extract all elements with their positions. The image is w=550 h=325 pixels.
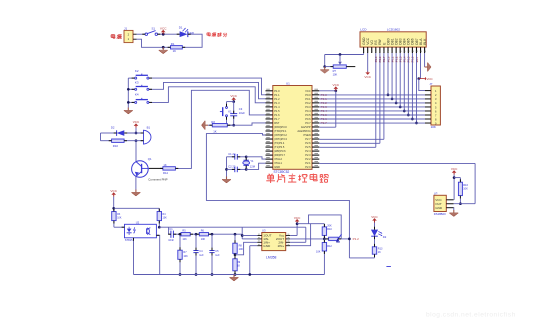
wire to 1IN- — [242, 238, 257, 240]
wire VCC to EA pin — [335, 91, 337, 127]
resistor R2 1K — [208, 124, 212, 126]
svg-text:1K: 1K — [213, 130, 217, 134]
op-amp U3 LM358 — [262, 233, 286, 251]
potentiometer contrast 10K — [325, 66, 334, 68]
svg-text:10uF: 10uF — [239, 111, 245, 115]
svg-text:S1: S1 — [152, 26, 156, 30]
wire J1 pin2 to rail — [137, 39, 171, 47]
svg-text:10K: 10K — [431, 125, 436, 129]
svg-text:K4: K4 — [135, 93, 139, 97]
VCC symbol at mcu — [319, 90, 336, 92]
svg-text:10K: 10K — [117, 217, 122, 220]
stray dash — [386, 266, 391, 268]
svg-text:1K: 1K — [237, 264, 240, 267]
wire buzzer node — [135, 132, 138, 135]
svg-text:10K: 10K — [201, 238, 206, 241]
wire BLA to VCC / RP1 pin1 — [419, 53, 421, 79]
svg-text:10K: 10K — [163, 217, 168, 220]
key K1 reset — [226, 107, 228, 109]
VCC power port at RP1 — [419, 78, 424, 80]
svg-text:ST815: ST815 — [125, 238, 133, 242]
resistor R12 1K — [323, 239, 325, 243]
svg-text:P2.1: P2.1 — [305, 161, 311, 165]
svg-text:(INT1)P3.3: (INT1)P3.3 — [274, 137, 287, 141]
VCC symbol lm358 — [290, 235, 297, 237]
svg-text:P1.5: P1.5 — [274, 109, 280, 113]
resistor R13 1K — [374, 236, 376, 247]
resistor R3 10K — [112, 212, 116, 221]
wire K3 to P1.2 — [149, 82, 265, 98]
resistor R6 10K — [199, 233, 208, 236]
svg-text:U1: U1 — [286, 82, 290, 86]
ground rail bottom — [134, 274, 325, 276]
sensor U4 DS18B20 — [434, 195, 446, 211]
svg-text:(TXD)P3.1: (TXD)P3.1 — [274, 129, 287, 133]
ground Q1 — [135, 176, 137, 189]
svg-text:P2.6: P2.6 — [305, 141, 311, 145]
svg-text:P1.1: P1.1 — [274, 93, 280, 97]
ground keys — [127, 108, 129, 111]
svg-text:(T1)P3.5: (T1)P3.5 — [274, 145, 285, 149]
svg-text:(WR)P3.6: (WR)P3.6 — [274, 149, 286, 153]
wire Q1 base — [142, 167, 149, 169]
svg-text:Q1: Q1 — [148, 157, 152, 161]
svg-text:VCC: VCC — [364, 75, 371, 79]
svg-text:P2.0: P2.0 — [305, 165, 311, 169]
svg-text:BLK: BLK — [423, 38, 427, 45]
wire opto cathode down — [133, 238, 135, 275]
wire keys common left — [127, 78, 129, 107]
wire comparator output to P3.2 — [206, 134, 349, 258]
svg-text:C1 22: C1 22 — [228, 152, 236, 156]
svg-text:U2: U2 — [136, 221, 140, 225]
wire led return — [374, 254, 376, 258]
lcd LCD1602 connector body — [360, 32, 426, 47]
svg-text:P2.4: P2.4 — [305, 149, 311, 153]
svg-text:P2.5: P2.5 — [305, 145, 311, 149]
wire R14 to P1.6 — [175, 90, 265, 168]
svg-text:EA/VPP: EA/VPP — [301, 125, 311, 129]
svg-text:R10: R10 — [327, 228, 332, 231]
resistor R5 10K — [181, 233, 190, 236]
wire R8/R9 node to 1IN+ — [234, 253, 236, 258]
wire crystal left vertical — [226, 157, 228, 177]
diode D2 led indicator — [371, 230, 378, 237]
svg-text:GND: GND — [274, 165, 280, 169]
connector J1 — [124, 30, 133, 42]
svg-text:P1.3: P1.3 — [274, 101, 280, 105]
wire opto collector net — [159, 226, 242, 228]
svg-text:10nF: 10nF — [168, 239, 174, 242]
svg-text:R1: R1 — [171, 42, 175, 46]
ground reset (left arrow) — [205, 124, 208, 126]
svg-text:1K: 1K — [163, 163, 166, 167]
wire vcc to ds18b20 — [453, 175, 455, 200]
svg-text:P0.5: P0.5 — [305, 113, 311, 117]
svg-text:10K: 10K — [333, 72, 338, 76]
svg-text:R10: R10 — [113, 144, 119, 148]
svg-text:VCC: VCC — [305, 89, 311, 93]
svg-text:P1.4: P1.4 — [274, 105, 280, 109]
optocoupler U2 ST815 — [125, 224, 157, 238]
wire reset top — [227, 101, 234, 103]
switch S1 — [145, 33, 147, 35]
svg-text:B1: B1 — [147, 126, 151, 130]
wire lcd RS RW E to P2 — [375, 53, 377, 147]
svg-text:P2.3: P2.3 — [305, 153, 311, 157]
svg-text:R16: R16 — [463, 183, 468, 187]
svg-text:VCC: VCC — [333, 83, 340, 87]
svg-text:VCC: VCC — [110, 189, 117, 193]
svg-text:P0.1: P0.1 — [305, 97, 311, 101]
svg-text:10K: 10K — [463, 187, 468, 191]
svg-text:10K: 10K — [239, 248, 244, 251]
wire comparator loop — [309, 215, 342, 239]
label 单片主控电路 (MCU main control circuit) — [269, 173, 270, 176]
resistor R4 10K — [158, 208, 160, 211]
svg-text:VCC: VCC — [133, 120, 140, 124]
VCC symbol ds18b20 — [453, 173, 455, 175]
svg-text:(T0)P3.4: (T0)P3.4 — [274, 141, 285, 145]
svg-text:U3: U3 — [262, 229, 266, 233]
svg-text:GND: GND — [263, 244, 271, 248]
resistor network RP1 10K — [431, 86, 440, 125]
resistor R16 10K pullup — [454, 177, 460, 179]
svg-text:J?: J? — [429, 82, 432, 86]
VCC symbol power section — [162, 32, 164, 34]
svg-text:K2: K2 — [135, 69, 139, 73]
capacitor C2 22 — [227, 168, 235, 170]
wire D1 to rail right side — [182, 34, 202, 47]
wire lcd data bus staircase — [387, 53, 389, 95]
VCC symbol led — [374, 221, 376, 223]
wire 1OUT feedback — [241, 227, 243, 239]
svg-text:10K: 10K — [316, 250, 321, 253]
svg-text:VCC: VCC — [294, 216, 301, 220]
svg-text:Comment PNP: Comment PNP — [148, 178, 167, 182]
ground crystal — [226, 177, 228, 180]
svg-text:K1: K1 — [228, 110, 232, 114]
key K3 — [135, 88, 137, 90]
svg-text:LM358: LM358 — [266, 256, 276, 260]
node R6 out — [209, 233, 243, 235]
diode D2 — [100, 133, 102, 141]
resistor R8 10K — [234, 233, 237, 236]
ground power section — [162, 46, 165, 49]
wire vcc rail to R10b — [297, 223, 324, 225]
svg-text:1K: 1K — [378, 251, 381, 254]
svg-text:P0.2: P0.2 — [305, 101, 311, 105]
svg-text:PSEN: PSEN — [304, 133, 311, 137]
svg-text:D2: D2 — [111, 126, 115, 130]
svg-text:VCC: VCC — [426, 77, 433, 81]
wire XTAL1 — [245, 168, 248, 171]
VCC symbol opto — [113, 195, 115, 197]
svg-text:XTAL2: XTAL2 — [274, 157, 282, 161]
diode D1 LED — [180, 31, 188, 37]
svg-text:P0.6: P0.6 — [305, 117, 311, 121]
svg-text:VCC: VCC — [230, 94, 237, 98]
svg-text:(RD)P3.7: (RD)P3.7 — [274, 153, 285, 157]
svg-text:1uF: 1uF — [199, 254, 204, 257]
svg-text:P1.2: P1.2 — [274, 97, 280, 101]
svg-text:P2.7: P2.7 — [305, 137, 311, 141]
wire R3 R4 top rail — [114, 207, 160, 209]
svg-text:2IN+: 2IN+ — [278, 244, 285, 248]
svg-text:P2.2: P2.2 — [305, 157, 311, 161]
VCC symbol lcd (down) — [367, 53, 369, 72]
resistor R10 buzzer — [101, 140, 112, 142]
ground lcd backlight (right arrow) — [424, 53, 426, 67]
svg-text:STC89C52: STC89C52 — [274, 170, 290, 174]
svg-text:VCC: VCC — [371, 215, 378, 219]
svg-text:P0.3: P0.3 — [305, 105, 311, 109]
svg-text:LCD1602: LCD1602 — [387, 28, 400, 32]
resistor R7 10K — [179, 233, 182, 236]
label 电源 (power) — [111, 34, 115, 36]
svg-text:ALE/PROG: ALE/PROG — [297, 129, 310, 133]
svg-text:10K: 10K — [183, 255, 188, 258]
key K4 — [135, 101, 137, 103]
resistor R1 1K — [171, 46, 183, 49]
wire buzzer to Q1 — [135, 141, 137, 162]
svg-text:P0.7: P0.7 — [305, 121, 311, 125]
svg-text:VCC: VCC — [451, 167, 458, 171]
wire GND pin to rail — [250, 245, 257, 247]
resistor R14 base — [163, 167, 176, 170]
ground ds18b20 — [453, 208, 455, 210]
svg-text:J1: J1 — [124, 27, 127, 31]
svg-text:P0.4: P0.4 — [305, 109, 311, 113]
svg-text:LCD: LCD — [360, 28, 367, 32]
svg-text:K3: K3 — [135, 80, 139, 84]
resistor R10b 20K — [322, 227, 326, 236]
capacitor C1 10nF (filter) — [169, 233, 171, 235]
wire S1 to D1 — [158, 33, 180, 35]
svg-text:R14: R14 — [163, 171, 168, 175]
ground lcd contrast — [324, 67, 326, 70]
wire P0 bus to RP1 — [319, 94, 425, 96]
key K2 — [135, 77, 137, 79]
wire ds18b20 data to P2.1 — [454, 203, 476, 205]
mcu U1 pins right — [312, 90, 319, 92]
svg-text:U?: U? — [434, 191, 438, 195]
buzzer B1 — [144, 130, 151, 144]
svg-text:(RXD)P3.0: (RXD)P3.0 — [274, 125, 287, 129]
svg-text:P1.2: P1.2 — [353, 237, 360, 241]
capacitor C5 1uF — [211, 234, 213, 250]
svg-text:Y1: Y1 — [250, 159, 254, 163]
wire opto emitter down — [156, 235, 159, 274]
mcu U1 STC89C52 body — [273, 86, 312, 170]
svg-text:blog.csdn.net.eletronicfish: blog.csdn.net.eletronicfish — [426, 312, 516, 319]
node R5-R6 — [190, 233, 199, 235]
capacitor C1 22 — [227, 156, 235, 158]
resistor R9 1K — [233, 259, 237, 271]
crystal Y1 12M — [245, 157, 247, 160]
svg-text:P1.6: P1.6 — [274, 113, 280, 117]
svg-text:12M: 12M — [250, 164, 256, 168]
svg-text:R12: R12 — [327, 245, 332, 248]
wire lcd gnd/vo — [363, 53, 365, 55]
wire 2IN+ up — [290, 224, 310, 246]
svg-text:10K: 10K — [182, 238, 187, 241]
svg-text:1K: 1K — [173, 49, 177, 53]
wire reset bottom — [227, 124, 234, 126]
capacitor C4 1uF — [195, 234, 197, 250]
trimmer node row — [324, 238, 328, 240]
lcd pins — [363, 47, 365, 53]
wire 2OUT to node — [290, 238, 324, 240]
transistor Q1 PNP — [132, 161, 149, 178]
VCC symbol buzzer — [135, 126, 137, 128]
svg-text:P1.0: P1.0 — [274, 89, 280, 93]
wire 2IN- feedback — [290, 241, 306, 243]
mcu U1 pins left — [266, 90, 273, 92]
svg-text:RST: RST — [274, 121, 280, 125]
wire K2 to P1.1 — [149, 78, 265, 95]
svg-text:R2: R2 — [211, 120, 215, 124]
wire XTAL2 — [245, 155, 248, 158]
svg-text:VCC: VCC — [160, 27, 167, 31]
wire R2 to RST pin — [227, 124, 233, 126]
svg-text:GND: GND — [435, 206, 443, 210]
svg-text:D2: D2 — [383, 235, 387, 239]
svg-text:XTAL1: XTAL1 — [274, 161, 282, 165]
svg-text:(INT0)P3.2: (INT0)P3.2 — [274, 133, 287, 137]
svg-text:C3: C3 — [239, 107, 243, 111]
VCC symbol reset — [233, 100, 235, 102]
capacitor C3 10uF — [233, 102, 235, 114]
svg-text:D1: D1 — [179, 26, 183, 30]
label 电源部分 (power part) — [207, 32, 210, 34]
svg-text:P1.7: P1.7 — [274, 117, 280, 121]
svg-text:C2 22: C2 22 — [228, 164, 236, 168]
svg-text:P0.0: P0.0 — [305, 93, 311, 97]
wire K4 to P1.3 — [149, 87, 265, 103]
svg-text:1uF: 1uF — [215, 254, 220, 257]
svg-text:DS18B20: DS18B20 — [434, 212, 446, 216]
component pin tips — [142, 33, 145, 35]
